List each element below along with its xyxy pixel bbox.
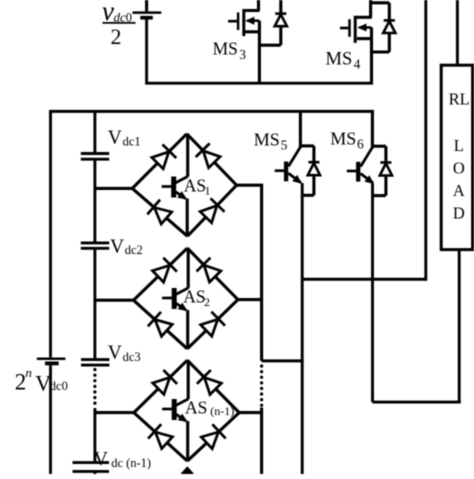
capacitor C3 (Vdc3) <box>81 360 109 366</box>
wire diode D6 bottom to MS6 emitter <box>373 194 386 197</box>
battery B1 top lead wire <box>145 0 148 11</box>
wire cap branch dotted continuation <box>93 370 96 409</box>
diode D6 (antiparallel of MS6) <box>380 146 392 195</box>
label AS2 <box>183 286 210 308</box>
diode bridge AS2 bottom-right diode <box>187 300 238 349</box>
transistor MS3 (MOSFET) <box>228 0 260 84</box>
node next-cell tip (cut off at bottom) <box>181 466 194 479</box>
label v_dc0/2 <box>102 0 136 49</box>
svg-text:V: V <box>94 449 108 470</box>
diode bridge AS1 top-left diode <box>132 134 187 189</box>
label Vdc1 <box>108 128 141 149</box>
label MS4 <box>326 50 361 72</box>
wire load bottom lead <box>458 250 461 404</box>
svg-text:A: A <box>453 181 465 200</box>
battery B1 (v_dc0/2) <box>133 13 162 18</box>
wire AS1 right corner to vertical rail <box>237 185 262 361</box>
diode bridge AS1 bottom-right diode <box>187 185 236 236</box>
load RL (box) <box>441 65 472 249</box>
wire below C4 <box>93 473 96 475</box>
svg-text:O: O <box>453 158 465 177</box>
wire output link to right top rail <box>302 278 426 281</box>
svg-text:(n-1): (n-1) <box>210 404 234 418</box>
svg-text:MS: MS <box>213 39 238 59</box>
diode bridge AS2 top-left diode <box>134 248 188 300</box>
diode bridge AS2 top-right diode <box>187 248 238 300</box>
svg-text:V: V <box>35 370 51 395</box>
svg-text:D: D <box>453 204 465 223</box>
wire MS6 emitter to load bottom <box>373 401 461 404</box>
wire node junction J3 to AS(n-1) left <box>95 411 135 414</box>
wire node junction J2 to AS2 left <box>95 299 135 302</box>
wire cap branch to C(n-1) <box>93 408 96 461</box>
wire left rail lower <box>49 365 52 474</box>
svg-text:AS: AS <box>183 286 205 306</box>
wire MS6 collector to diode D6 <box>372 145 386 148</box>
diode D5 (antiparallel of MS5) <box>308 146 320 195</box>
diode D3 (antiparallel of MS3) <box>275 0 287 45</box>
label Vdc3 <box>108 343 141 364</box>
svg-text:v: v <box>102 0 114 26</box>
label AS1 <box>184 176 211 198</box>
diode bridge AS(n-1) top-right diode <box>187 360 239 412</box>
wire diode D5 bottom to MS5 emitter <box>302 194 314 197</box>
transistor MS5 (IGBT) <box>275 110 302 184</box>
wire left rail upper <box>49 110 52 357</box>
label MS6 <box>330 128 364 151</box>
wire AS(n-1) right corner to bottom rail <box>239 408 263 475</box>
wire node junction J1 to AS1 left <box>95 187 134 190</box>
svg-text:6: 6 <box>357 136 364 151</box>
svg-text:L: L <box>454 136 464 155</box>
svg-text:AS: AS <box>185 398 207 418</box>
wire MS5 emitter rail down <box>301 183 304 474</box>
svg-text:dc0: dc0 <box>50 379 68 393</box>
svg-text:4: 4 <box>354 56 361 71</box>
svg-text:MS: MS <box>326 50 353 70</box>
transistor AS2 (IGBT) <box>162 248 188 349</box>
transistor MS6 (IGBT) <box>347 110 374 184</box>
wire right rail from top (output) <box>424 0 427 281</box>
svg-text:n: n <box>25 365 32 380</box>
svg-text:MS: MS <box>254 129 280 149</box>
svg-text:dc1: dc1 <box>123 134 141 148</box>
transistor AS(n-1) (IGBT) <box>162 360 188 461</box>
wire cap branch from bus2 <box>93 110 96 152</box>
svg-text:V: V <box>108 343 122 364</box>
battery B0 (2^n Vdc0) <box>37 359 66 364</box>
diode bridge AS(n-1) bottom-left diode <box>134 413 187 461</box>
wire load top lead <box>456 0 459 67</box>
wire horizontal link to MS5 emitter rail <box>262 359 304 362</box>
wire cap branch C1-C2 <box>93 161 96 243</box>
capacitor C4 (Vdc(n-1)) <box>73 463 110 472</box>
svg-text:2: 2 <box>204 295 210 309</box>
wire bus2 (dc link top) <box>49 110 374 113</box>
label Vdc2 <box>110 237 143 258</box>
transistor AS1 (IGBT) <box>162 134 188 236</box>
svg-text:dc2: dc2 <box>125 243 143 257</box>
wire MS3 source to diode D3 <box>259 44 280 47</box>
diode bridge AS(n-1) top-left diode <box>134 360 187 412</box>
label MS5 <box>254 129 288 152</box>
svg-text:dc3: dc3 <box>123 350 141 364</box>
svg-text:2: 2 <box>111 24 122 49</box>
wire MS4 source to diode D4 <box>372 50 390 53</box>
transistor MS4 (MOSFET) <box>340 0 389 84</box>
wire battery B1 to bus1 and bus1 to MS4 source <box>147 20 373 84</box>
svg-text:MS: MS <box>330 128 356 148</box>
label MS3 <box>213 39 247 62</box>
svg-text:5: 5 <box>281 137 288 152</box>
diode bridge AS(n-1) bottom-right diode <box>187 413 239 461</box>
svg-text:RL: RL <box>449 89 470 108</box>
wire dotted continuation right rail <box>260 366 263 408</box>
label 2^n Vdc0 <box>15 365 68 396</box>
capacitor C1 (Vdc1) <box>81 154 109 160</box>
capacitor C2 (Vdc2) <box>81 243 109 248</box>
svg-text:AS: AS <box>184 176 206 196</box>
label Vdc(n-1) <box>94 449 151 470</box>
wire MS5 collector to diode D5 <box>300 144 314 147</box>
wire MS6 emitter down <box>371 183 374 402</box>
label AS(n-1) <box>185 398 234 419</box>
svg-text:1: 1 <box>205 183 211 197</box>
diode bridge AS2 bottom-left diode <box>134 300 188 349</box>
diode bridge AS1 top-right diode <box>187 134 237 185</box>
svg-text:V: V <box>108 128 122 149</box>
svg-text:3: 3 <box>239 47 246 62</box>
svg-text:dc (n-1): dc (n-1) <box>111 456 151 470</box>
diode bridge AS1 bottom-left diode <box>132 188 187 236</box>
wire cap branch C2-C3 <box>93 250 96 359</box>
svg-text:V: V <box>110 237 124 258</box>
label RL LOAD <box>449 89 470 222</box>
diode D4 (antiparallel of MS4) <box>383 3 395 52</box>
wire AS2 right corner tap <box>238 298 263 301</box>
